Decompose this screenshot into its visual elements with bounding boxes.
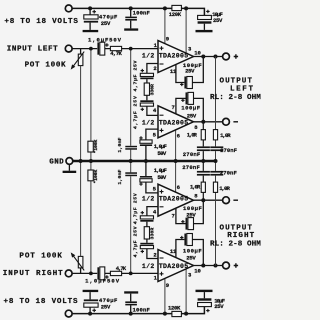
svg-text:*100K: *100K: [93, 170, 99, 184]
svg-text:INPUT LEFT: INPUT LEFT: [7, 45, 58, 53]
svg-text:330R: 330R: [150, 228, 156, 240]
svg-text:1/2 TDA2005: 1/2 TDA2005: [142, 263, 188, 270]
svg-text:+8 TO 18 VOLTS: +8 TO 18 VOLTS: [4, 298, 78, 306]
junction C12/GND rail: [214, 159, 218, 163]
svg-text:POT 100K: POT 100K: [19, 252, 62, 260]
svg-text:1/2 TDA2005: 1/2 TDA2005: [142, 119, 188, 126]
svg-text:+8 TO 18 VOLTS: +8 TO 18 VOLTS: [4, 18, 78, 26]
right channel graphics (mirrored): [65, 162, 229, 317]
svg-text:1,0R: 1,0R: [220, 132, 231, 139]
svg-text:1/2 TDA2005: 1/2 TDA2005: [142, 196, 188, 203]
svg-text:25V: 25V: [101, 303, 111, 310]
svg-text:11: 11: [170, 248, 177, 255]
svg-text:4,7K: 4,7K: [110, 50, 122, 57]
junction R3/GND rail: [89, 159, 93, 163]
junction C5/GND rail: [129, 159, 133, 163]
svg-text:10: 10: [194, 268, 201, 275]
GND terminal: [66, 158, 73, 165]
junction C8/GND rail: [144, 159, 148, 163]
svg-text:270nF: 270nF: [183, 151, 201, 158]
svg-text:50V: 50V: [157, 174, 166, 181]
svg-text:25V: 25V: [185, 67, 195, 74]
svg-text:RIGHT: RIGHT: [227, 232, 254, 240]
svg-text:4,7K: 4,7K: [116, 265, 127, 272]
svg-text:330R: 330R: [150, 84, 156, 95]
svg-text:4,7µF 25V: 4,7µF 25V: [133, 96, 139, 129]
svg-text:100µF: 100µF: [181, 104, 200, 111]
ground symbol at GND terminal: [68, 164, 70, 170]
svg-text:7: 7: [172, 104, 175, 111]
svg-text:270nF: 270nF: [220, 147, 238, 154]
svg-text:100nF: 100nF: [133, 9, 151, 16]
svg-text:25V: 25V: [186, 211, 196, 218]
svg-text:120K: 120K: [168, 304, 181, 311]
svg-text:1,0R: 1,0R: [190, 183, 201, 190]
svg-text:1,0nF: 1,0nF: [117, 170, 123, 185]
svg-text:270nF: 270nF: [182, 164, 200, 171]
left channel graphics: [65, 5, 229, 160]
svg-text:INPUT RIGHT: INPUT RIGHT: [3, 270, 63, 278]
svg-text:11: 11: [170, 68, 177, 75]
svg-text:RL: 2-8 OHM: RL: 2-8 OHM: [210, 240, 261, 248]
svg-text:1,0nF: 1,0nF: [117, 138, 123, 153]
svg-text:25V: 25V: [186, 255, 196, 262]
svg-text:4,7µF 25V: 4,7µF 25V: [133, 60, 139, 91]
svg-text:50V: 50V: [157, 150, 166, 157]
svg-text:25V: 25V: [214, 303, 224, 310]
svg-text:4,7µF 25V: 4,7µF 25V: [133, 226, 139, 257]
svg-text:100nF: 100nF: [133, 307, 151, 314]
svg-text:1,0µF50V: 1,0µF50V: [88, 36, 122, 43]
svg-text:120K: 120K: [169, 11, 182, 18]
svg-text:GND: GND: [49, 158, 64, 166]
svg-text:1,0µF50V: 1,0µF50V: [85, 278, 120, 285]
svg-text:10: 10: [194, 49, 201, 56]
terminal polarity marks: [234, 54, 238, 58]
svg-text:OUTPUT: OUTPUT: [220, 77, 253, 85]
svg-text:25V: 25V: [101, 20, 111, 27]
svg-text:25V: 25V: [213, 17, 223, 24]
svg-text:1,0R: 1,0R: [187, 131, 198, 138]
junction C11/GND rail: [201, 159, 205, 163]
svg-text:1/2 TDA2005: 1/2 TDA2005: [142, 52, 188, 59]
svg-text:RL: 2-8 OHM: RL: 2-8 OHM: [210, 94, 261, 102]
junction pin6/GND rail: [174, 159, 178, 163]
junction pot/GND rail: [79, 159, 83, 163]
svg-text:POT 100K: POT 100K: [25, 61, 66, 69]
svg-text:LEFT: LEFT: [230, 86, 253, 94]
svg-text:7: 7: [172, 213, 175, 220]
GND rail: [73, 160, 216, 162]
svg-text:25V: 25V: [187, 112, 197, 119]
svg-text:1,0R: 1,0R: [219, 185, 230, 192]
svg-text:4,7µF 25V: 4,7µF 25V: [133, 193, 139, 224]
svg-text:*100K: *100K: [93, 139, 99, 153]
svg-text:270nF: 270nF: [220, 170, 238, 177]
